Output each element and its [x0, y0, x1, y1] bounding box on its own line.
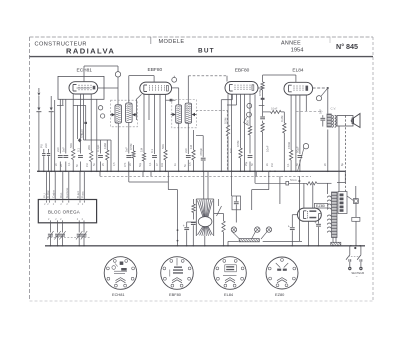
dial lamp L1: [231, 227, 236, 232]
pin callout: [98, 106, 102, 110]
IF T2 primary coil: [176, 105, 182, 123]
wire: [240, 94, 242, 148]
svg-text:ECH81: ECH81: [77, 68, 93, 74]
BLOC pin tick: [83, 220, 85, 222]
svg-text:47K: 47K: [124, 162, 127, 167]
wire: [255, 171, 257, 176]
BLOC box: [38, 200, 96, 223]
resistor: [192, 150, 195, 160]
switch link dashed: [348, 256, 359, 258]
svg-text:1M: 1M: [140, 147, 144, 152]
resistor: [193, 199, 195, 204]
header divider tick: [150, 37, 152, 44]
coupling resistor: [263, 111, 271, 113]
wire: [38, 96, 40, 108]
svg-text:Gamme: Gamme: [65, 187, 69, 198]
wire speaker field lead dashed: [345, 116, 347, 192]
BLOC pin tick: [78, 220, 80, 222]
wire: [85, 105, 87, 121]
wire to BLOC: [54, 171, 56, 199]
wire: [77, 105, 79, 139]
wire: [143, 94, 145, 153]
BLOC pin tick: [49, 220, 51, 222]
svg-text:20K: 20K: [87, 145, 91, 150]
wire to BLOC: [46, 171, 48, 199]
wire from BLOC: [78, 223, 80, 233]
IF T1 tuning arrow 1: [112, 113, 115, 117]
wire V2 plate: [172, 87, 179, 89]
svg-text:0,5: 0,5: [189, 162, 192, 166]
tube V4 internal electrodes: [289, 85, 309, 92]
antenna plug contact: [37, 108, 40, 111]
wire link mid: [84, 139, 112, 141]
capacitor: [98, 156, 103, 158]
svg-text:150Ω: 150Ω: [287, 141, 291, 149]
resistor: [72, 149, 75, 160]
wire: [65, 99, 67, 153]
chassis tick: [150, 171, 152, 176]
wire: [203, 171, 205, 199]
wire: [355, 186, 357, 199]
wire HT corner: [344, 171, 346, 182]
tube V4 EL84 envelope: [284, 82, 313, 95]
dashed line: [296, 110, 323, 112]
dashed align line: [47, 237, 90, 239]
wire link: [214, 213, 224, 215]
wire: [360, 246, 362, 255]
IF T1 dashed can: [111, 100, 138, 127]
dial lamps resistor bar: [239, 239, 259, 242]
svg-text:1M: 1M: [86, 164, 89, 167]
svg-text:N° 845: N° 845: [336, 42, 358, 51]
BLOC pin tick: [83, 200, 85, 202]
component box with cap: [232, 196, 241, 210]
wire: [166, 99, 176, 101]
svg-text:5nF: 5nF: [125, 147, 129, 152]
BLOC pin tick: [62, 200, 64, 202]
wire: [50, 112, 52, 172]
switch arm: [217, 206, 222, 216]
output transformer secondary arcs: [332, 115, 334, 127]
pin callout M2: [172, 77, 177, 82]
wire: [235, 210, 237, 223]
resistor: [164, 150, 167, 160]
svg-text:EBF80: EBF80: [169, 292, 182, 297]
wire plate to OT: [327, 88, 329, 114]
svg-text:0,1: 0,1: [76, 148, 80, 152]
wire: [319, 213, 321, 215]
dashed line: [100, 175, 311, 177]
capacitor filter 1: [292, 214, 297, 216]
wire: [117, 77, 119, 105]
wire: [106, 140, 108, 150]
trimmer capacitor: [55, 233, 60, 235]
wire to BLOC: [49, 171, 51, 199]
BLOC pin tick: [49, 200, 51, 202]
resistor: [223, 214, 225, 222]
speaker voice coil bar: [352, 118, 354, 124]
stub link: [73, 104, 86, 106]
svg-text:1M: 1M: [271, 164, 274, 167]
label box EZ80: [314, 203, 327, 208]
IF T1 primary coil: [115, 105, 122, 123]
bus junction dots: [38, 170, 40, 172]
wire: [227, 94, 229, 125]
chassis tick: [167, 171, 169, 176]
ground junction dots: [50, 245, 52, 247]
svg-text:SECTEUR: SECTEUR: [351, 271, 364, 275]
tube V2 EBF80 envelope: [140, 82, 172, 94]
svg-text:2nF: 2nF: [56, 147, 60, 152]
wire: [290, 95, 292, 150]
CV fan lines: [198, 201, 204, 218]
pin callout leader: [247, 112, 252, 117]
tube V1 ECH81 envelope: [69, 82, 98, 94]
tube V3 EBF80 envelope: [225, 82, 258, 95]
wire: [110, 140, 112, 171]
capacitor electrolytic: [186, 222, 188, 227]
header divider tick 2: [329, 37, 331, 43]
wire: [62, 99, 64, 105]
capacitor: [248, 156, 253, 158]
wire to BLOC: [79, 171, 81, 199]
junction blob: [170, 99, 173, 102]
wire EZ80 plate: [303, 183, 305, 208]
socket S1 ECH81: [104, 257, 137, 290]
wire to BLOC: [68, 171, 70, 199]
svg-text:0,5: 0,5: [113, 162, 116, 166]
junction blob: [354, 247, 356, 249]
resistor: [248, 126, 251, 135]
svg-text:EBF80: EBF80: [235, 68, 250, 74]
wire V4 grid link: [263, 74, 296, 76]
svg-text:EL84: EL84: [224, 292, 234, 297]
wire from BLOC: [83, 223, 85, 233]
wire: [187, 123, 189, 154]
output transformer primary: [327, 114, 331, 127]
wire: [187, 221, 197, 223]
wire V1 cathode: [83, 94, 85, 140]
socket S2 EBF80: [161, 257, 194, 290]
wire: [355, 203, 357, 217]
BLOC pin tick: [57, 220, 59, 222]
power transformer primary arcs: [327, 196, 331, 209]
wire fuse: [347, 196, 353, 201]
PU input capacitor: [43, 149, 45, 153]
wire: [80, 94, 82, 154]
fuse: [353, 199, 358, 204]
svg-text:P.acc: P.acc: [81, 191, 85, 198]
antenna plug contact 2: [50, 108, 53, 111]
wire: [90, 94, 92, 151]
wire transformer bottom: [332, 238, 334, 243]
stub link: [57, 104, 64, 106]
IF T1 secondary coil: [126, 103, 133, 123]
wire: [100, 140, 102, 154]
socket S4 EZ80: [266, 257, 298, 289]
wire: [207, 171, 209, 199]
capacitor: [63, 156, 68, 158]
svg-text:50K: 50K: [246, 120, 250, 125]
shield box around V1: [58, 76, 104, 99]
svg-text:0,1: 0,1: [149, 162, 152, 166]
AVC dashed drop: [226, 110, 228, 171]
capacitor: [260, 117, 265, 119]
component box: [286, 181, 289, 185]
switch contact 1: [348, 259, 350, 262]
junction blob: [84, 122, 87, 124]
wire: [254, 171, 256, 183]
capacitor: [58, 156, 63, 158]
power transformer core: [332, 192, 338, 238]
svg-text:0,1: 0,1: [68, 162, 71, 166]
svg-text:BUT: BUT: [198, 48, 215, 55]
chassis tick: [128, 171, 130, 176]
dial lamp L2: [255, 227, 260, 232]
wire V3 plate: [258, 87, 263, 89]
svg-text:2nF: 2nF: [44, 143, 48, 148]
plug pin 2: [359, 267, 362, 270]
wire to BLOC: [62, 171, 64, 199]
switch arm 1: [346, 255, 350, 260]
svg-text:10nF: 10nF: [271, 107, 278, 111]
svg-text:50p: 50p: [139, 162, 142, 167]
BLOC pin tick: [68, 200, 70, 202]
wire: [299, 95, 301, 154]
resistor: [106, 150, 109, 160]
capacitor: [298, 156, 303, 158]
wire: [193, 130, 195, 150]
wire V2 pin diagonal: [137, 94, 142, 120]
IF T2 tuning arrow 1: [172, 113, 175, 117]
wire: [154, 94, 156, 154]
wire: [117, 123, 119, 171]
wire: [268, 171, 270, 189]
variable capacitor gang: [196, 199, 213, 236]
tube V5 internal electrodes: [304, 210, 317, 218]
IF T2 dashed can: [172, 100, 197, 128]
wire V1 grid top: [83, 66, 85, 82]
wire: [167, 182, 169, 190]
wire: [38, 112, 40, 172]
trimmer capacitor: [82, 233, 87, 235]
svg-text:EL84: EL84: [292, 68, 304, 74]
svg-text:EBF80: EBF80: [148, 67, 163, 73]
svg-text:PU: PU: [40, 144, 44, 148]
svg-text:0,5M: 0,5M: [224, 117, 228, 124]
wire from BLOC: [49, 223, 51, 233]
svg-text:1MΩ: 1MΩ: [103, 142, 107, 149]
wire: [327, 183, 329, 194]
pin callout A: [303, 144, 308, 149]
resistor: [239, 148, 242, 158]
chassis tick: [142, 171, 144, 176]
wire: [249, 94, 251, 126]
wire: [305, 95, 307, 111]
wire: [295, 95, 297, 171]
svg-text:0,5M: 0,5M: [236, 140, 240, 147]
IF T2 secondary coil: [185, 103, 192, 123]
wire: [298, 176, 300, 241]
junction dot: [177, 229, 179, 231]
wire: [99, 171, 101, 176]
antenna input wire 2: [50, 96, 52, 108]
wire lamp bar right: [263, 240, 302, 242]
capacitor filter 2: [318, 214, 320, 224]
svg-text:Osc.: Osc.: [79, 132, 83, 138]
wire: [349, 262, 351, 267]
svg-text:470pF: 470pF: [199, 148, 203, 156]
wire: [355, 221, 357, 246]
wire to BLOC: [83, 171, 85, 199]
svg-text:1M: 1M: [189, 144, 193, 149]
svg-text:B.Osc: B.Osc: [46, 190, 50, 198]
svg-text:50mA: 50mA: [290, 178, 297, 182]
BLOC pin tick: [62, 220, 64, 222]
wire bar to gnd: [332, 245, 334, 247]
svg-text:10nF: 10nF: [266, 145, 270, 152]
resistor: [226, 125, 229, 136]
svg-text:Cadre: Cadre: [51, 190, 55, 198]
svg-text:10n: 10n: [161, 162, 164, 167]
PU input capacitor 2: [48, 149, 50, 153]
switch contact 2: [359, 259, 361, 262]
svg-text:0,2M: 0,2M: [280, 115, 284, 122]
svg-text:5nF: 5nF: [229, 148, 233, 153]
capacitor: [191, 223, 196, 225]
wire: [159, 94, 161, 171]
capacitor: [186, 156, 191, 158]
svg-text:+: +: [288, 225, 290, 229]
antenna input wire: [38, 88, 40, 92]
svg-text:50µF: 50µF: [296, 146, 300, 153]
svg-text:5nF: 5nF: [319, 109, 323, 114]
HT bus: [37, 170, 345, 172]
wire: [360, 262, 362, 267]
wire: [85, 124, 87, 140]
svg-text:5nF: 5nF: [62, 147, 66, 152]
svg-text:0,5M: 0,5M: [258, 89, 262, 96]
trimmer diamond: [78, 138, 82, 142]
svg-text:EZ80: EZ80: [316, 204, 325, 208]
mains dropper bar: [331, 242, 341, 245]
junction dot: [327, 87, 329, 89]
wire: [231, 94, 233, 171]
tube V1 internal electrodes: [73, 85, 95, 92]
IF T2 tuning arrow 2: [192, 113, 195, 117]
junction dot: [298, 180, 300, 182]
junction dot: [177, 240, 179, 242]
wire from BLOC: [57, 223, 59, 233]
svg-text:50K: 50K: [161, 144, 165, 149]
resistor: [289, 150, 292, 160]
wire: [59, 99, 61, 153]
resistor horizontal: [307, 182, 317, 185]
voltage selector box: [352, 217, 360, 221]
wire speaker field lead: [338, 126, 340, 192]
svg-text:Osc.: Osc.: [59, 192, 63, 198]
wire: [279, 176, 281, 204]
wire: [72, 94, 74, 149]
resistor: [132, 151, 135, 158]
heater link: [128, 176, 130, 182]
stub: [259, 104, 265, 106]
wire IF T1 sec top: [128, 76, 130, 103]
IF T1 tuning arrow 2: [132, 113, 135, 117]
svg-text:0,1: 0,1: [150, 149, 154, 153]
wire V3 pin link: [231, 94, 233, 100]
wire: [165, 94, 167, 150]
capacitor: [126, 156, 131, 158]
svg-text:+: +: [315, 221, 317, 225]
BLOC pin tick: [79, 200, 81, 202]
header underline: [30, 56, 374, 58]
svg-text:MODELE: MODELE: [159, 39, 185, 45]
svg-text:2nF: 2nF: [184, 148, 188, 153]
wire: [96, 99, 98, 171]
wire: [133, 145, 135, 151]
pin callout G: [316, 96, 321, 101]
wire IF T2 sec top to V3 grid: [187, 76, 189, 103]
wire CV rotor to gnd: [204, 236, 206, 246]
wire V3 pin link 2: [236, 94, 238, 105]
svg-text:EZ80: EZ80: [275, 292, 285, 297]
AGC cap branch: [196, 135, 203, 137]
speaker apex circle: [351, 120, 353, 122]
wire lamp bar left: [228, 240, 239, 242]
svg-text:BLOC OREGA: BLOC OREGA: [48, 210, 80, 215]
resistor: [142, 153, 145, 161]
wire: [244, 94, 246, 171]
wire from BLOC: [62, 223, 64, 233]
svg-text:ANNEE: ANNEE: [281, 41, 301, 47]
capacitor: [78, 156, 83, 158]
wire: [148, 94, 150, 120]
trimmer capacitor: [77, 233, 82, 235]
trimmer capacitor: [48, 233, 53, 235]
speaker frame box: [337, 116, 353, 127]
svg-text:+: +: [183, 224, 185, 228]
pin callout: [247, 103, 252, 108]
wire EZ80 cathode: [308, 221, 310, 246]
svg-text:~: ~: [356, 275, 358, 279]
tube V2 internal electrodes: [144, 85, 169, 92]
heater-tone line: [255, 182, 286, 184]
BLOC pin tick: [54, 200, 56, 202]
wire V4 plate dashed: [313, 87, 328, 89]
svg-text:25µ: 25µ: [245, 161, 248, 166]
wire: [54, 100, 56, 171]
wire: [349, 246, 351, 255]
plate load chain: [262, 75, 264, 82]
svg-text:0,5M: 0,5M: [129, 143, 133, 150]
power transformer terminal board: [338, 192, 347, 214]
pin callout: [100, 114, 104, 118]
svg-text:C.V.: C.V.: [331, 107, 337, 111]
svg-text:0,1µF: 0,1µF: [96, 144, 100, 152]
trimmer capacitor: [60, 233, 65, 235]
svg-text:0,1: 0,1: [287, 163, 290, 167]
speaker cone: [354, 114, 361, 128]
wire: [254, 94, 256, 171]
BLOC pin tick: [46, 200, 48, 202]
junction blob: [261, 98, 265, 100]
plug pin 1: [348, 267, 351, 270]
svg-text:ECH81: ECH81: [112, 292, 125, 297]
AVC dashed line: [196, 109, 227, 111]
wire: [178, 123, 180, 171]
ground bus: [45, 245, 365, 247]
